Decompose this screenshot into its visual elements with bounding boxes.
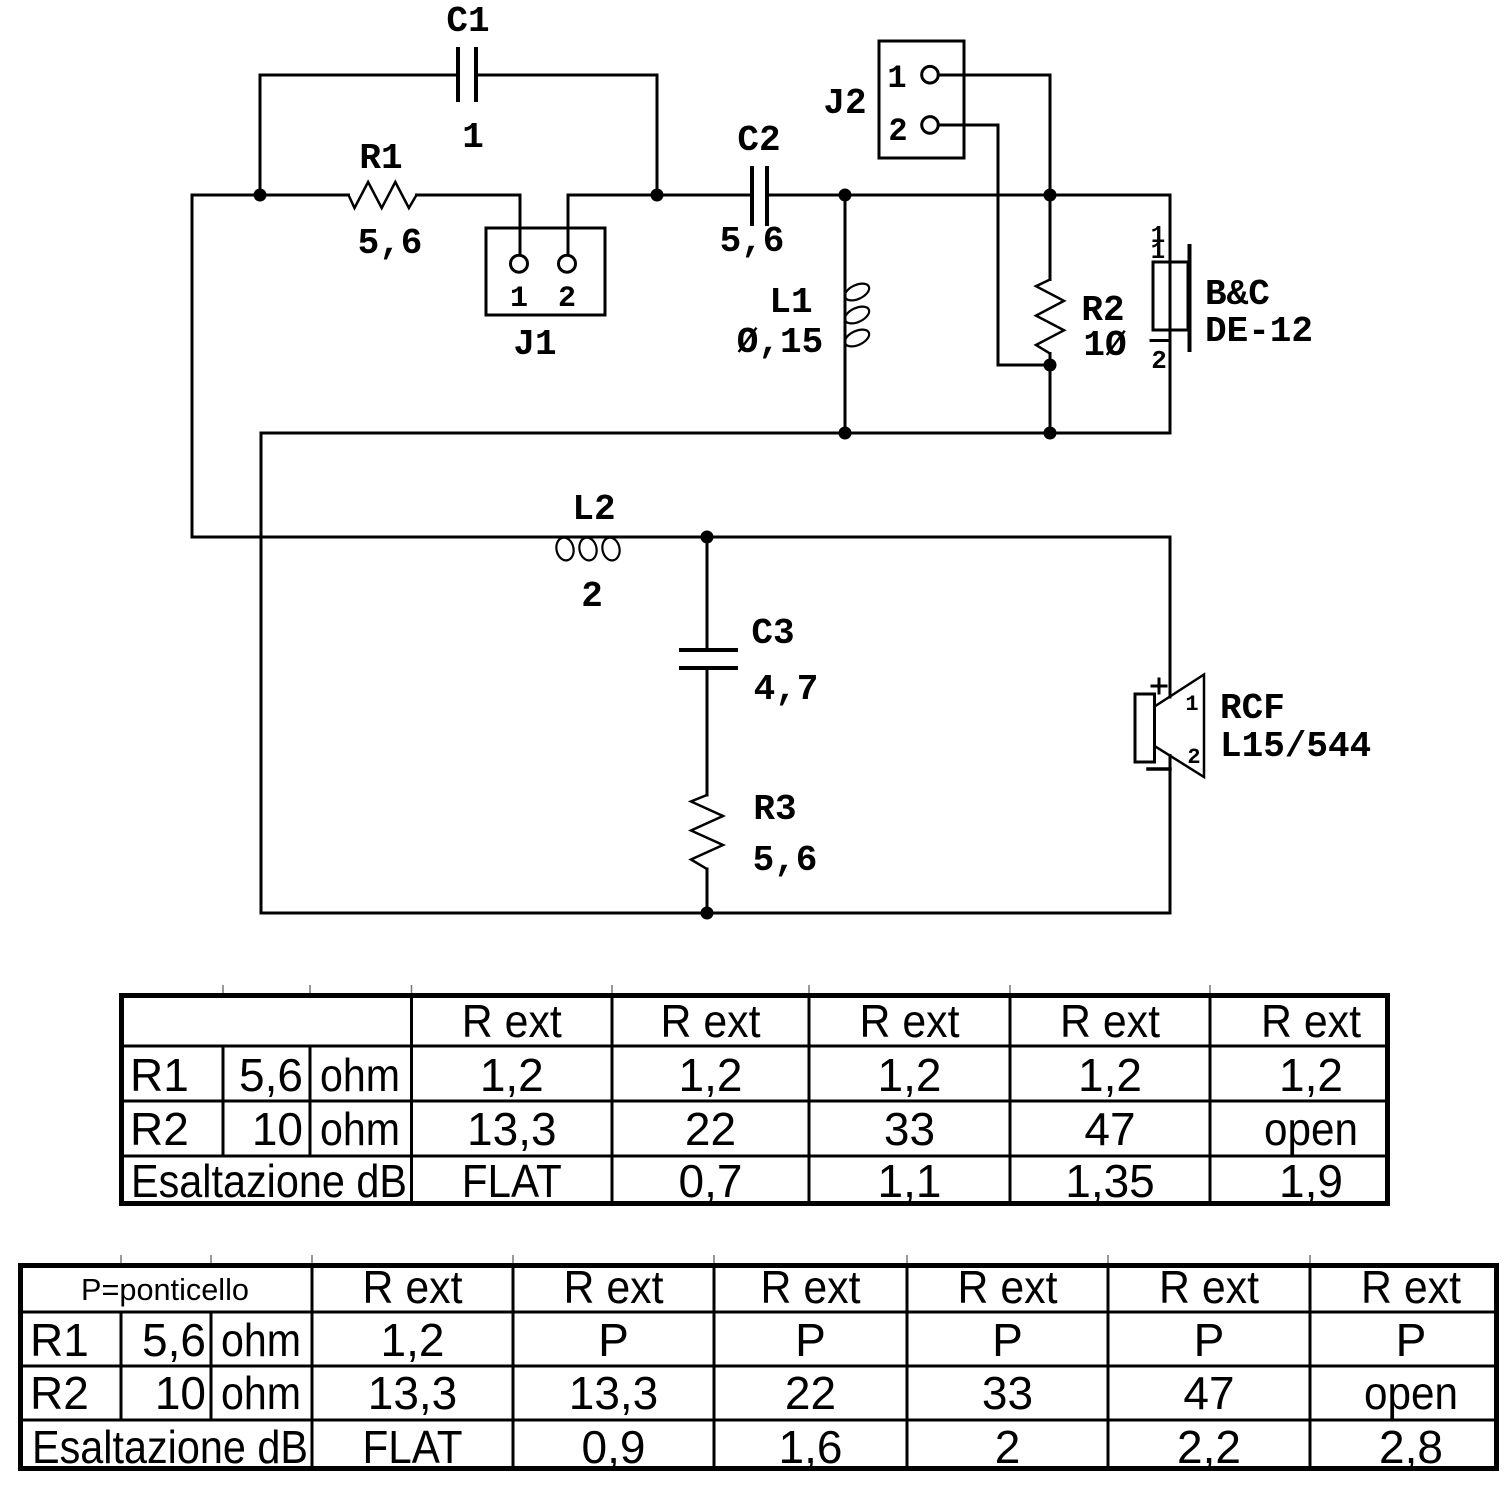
svg-text:1: 1 [1151, 239, 1165, 266]
svg-text:33: 33 [982, 1367, 1033, 1419]
wire C3 to R3 [706, 668, 709, 795]
svg-text:DE-12: DE-12 [1205, 311, 1313, 352]
connector J2 pin1 circle [922, 66, 939, 83]
speaker RCF horn [1155, 675, 1205, 778]
svg-text:1,6: 1,6 [779, 1421, 843, 1473]
svg-text:Esaltazione dB: Esaltazione dB [131, 1155, 407, 1207]
table 1 column line c [410, 995, 413, 1204]
svg-text:R ext: R ext [1159, 1261, 1259, 1313]
speaker minus sign [1148, 767, 1170, 771]
svg-text:P: P [1194, 1314, 1225, 1366]
driver B&C pin2 overline [1151, 339, 1167, 342]
table 2 outer border [21, 1266, 1497, 1469]
wire R3 bottom lead [706, 869, 709, 913]
svg-text:open: open [1264, 1103, 1358, 1155]
wire rail3 [261, 912, 1170, 915]
table 2 column line g [1107, 1265, 1110, 1469]
svg-text:C3: C3 [751, 613, 794, 654]
resistor R1 [349, 182, 417, 208]
wire J2 pin2 vertical [997, 125, 1000, 365]
svg-text:P=ponticello: P=ponticello [81, 1272, 249, 1307]
svg-text:ohm: ohm [221, 1314, 301, 1366]
svg-text:Esaltazione dB: Esaltazione dB [32, 1421, 308, 1473]
svg-text:5,6: 5,6 [239, 1049, 303, 1101]
svg-text:13,3: 13,3 [569, 1367, 659, 1419]
resistor R3 [691, 795, 723, 869]
svg-text:RCF: RCF [1220, 688, 1285, 729]
wire J2 pin1 vertical [1049, 75, 1052, 195]
node junction R3 bottom [701, 907, 714, 920]
connector J2 pin2 circle [922, 117, 939, 134]
svg-text:1,1: 1,1 [878, 1155, 942, 1207]
svg-text:1,2: 1,2 [679, 1049, 743, 1101]
wire J2 pin2 horizontal [938, 124, 998, 127]
svg-text:R2: R2 [130, 1103, 189, 1155]
svg-text:R ext: R ext [363, 1261, 463, 1313]
driver B&C rect [1153, 262, 1188, 330]
svg-text:ohm: ohm [320, 1049, 400, 1101]
wire J2 pin1 horizontal [938, 74, 1050, 77]
table 2 grid stubs above [121, 1255, 1310, 1263]
svg-text:R1: R1 [130, 1049, 189, 1101]
svg-text:2: 2 [1187, 745, 1200, 770]
svg-text:R ext: R ext [761, 1261, 861, 1313]
svg-text:J1: J1 [513, 324, 556, 365]
svg-text:1,2: 1,2 [878, 1049, 942, 1101]
table 1 column line e [808, 995, 811, 1204]
svg-text:ohm: ohm [320, 1103, 400, 1155]
svg-text:47: 47 [1084, 1103, 1135, 1155]
capacitor C1 [458, 49, 476, 100]
table 1 column line f [1009, 995, 1012, 1204]
wire speaker bottom lead [1169, 756, 1172, 914]
svg-text:FLAT: FLAT [462, 1155, 562, 1207]
svg-text:22: 22 [685, 1103, 736, 1155]
table 1 column line b [309, 1046, 312, 1156]
svg-text:B&C: B&C [1205, 274, 1270, 315]
svg-text:2: 2 [888, 113, 907, 150]
svg-text:R ext: R ext [1060, 995, 1160, 1047]
wire rail1 right [767, 194, 1170, 197]
wire rail2 [261, 432, 1170, 435]
table 1 column line d [611, 995, 614, 1204]
capacitor C3 [681, 650, 736, 668]
wire rail1 to J1 pin1 [417, 194, 521, 197]
svg-text:J2: J2 [823, 83, 866, 124]
speaker plus sign [1152, 679, 1166, 693]
wire B&C vertical [1169, 195, 1172, 433]
svg-text:ohm: ohm [221, 1367, 301, 1419]
inductor L1 wire [844, 195, 847, 433]
wire L2 row right [616, 536, 1170, 539]
svg-text:R1: R1 [359, 138, 402, 179]
resistor R2 lead top [1049, 195, 1052, 280]
table 2 row line 2 [18, 1365, 1497, 1368]
table 2 row line 1 [18, 1311, 1497, 1314]
svg-text:R ext: R ext [1261, 995, 1361, 1047]
wire rail1 mid [568, 194, 752, 197]
svg-text:R ext: R ext [661, 995, 761, 1047]
svg-text:1,2: 1,2 [1078, 1049, 1142, 1101]
node junction R2 top [1044, 189, 1057, 202]
table 2 column line f [906, 1265, 909, 1469]
svg-text:5,6: 5,6 [753, 840, 818, 881]
svg-text:C2: C2 [737, 120, 780, 161]
node junction C3 top [701, 531, 714, 544]
wire rail1 left [192, 194, 349, 197]
node junction R2 mid [1044, 359, 1057, 372]
svg-text:1: 1 [462, 117, 484, 158]
table 2 column line d [512, 1265, 515, 1469]
wire J2 pin2 to R2 [998, 364, 1050, 367]
svg-text:2: 2 [581, 576, 603, 617]
capacitor C2 [752, 168, 767, 224]
table 1 column line g [1209, 995, 1212, 1204]
table 2 column line b [210, 1312, 213, 1420]
table 1 column line a [222, 1046, 225, 1156]
connector J2 box [879, 41, 964, 158]
svg-text:P: P [992, 1314, 1023, 1366]
svg-text:1,2: 1,2 [1279, 1049, 1343, 1101]
svg-text:1: 1 [1185, 692, 1198, 717]
driver B&C bar [1188, 246, 1192, 350]
svg-text:R1: R1 [30, 1314, 89, 1366]
svg-text:R ext: R ext [564, 1261, 664, 1313]
svg-text:C1: C1 [446, 1, 489, 42]
svg-text:R ext: R ext [958, 1261, 1058, 1313]
svg-text:open: open [1364, 1367, 1458, 1419]
table 1 outer border [122, 996, 1388, 1204]
svg-text:2,8: 2,8 [1379, 1421, 1443, 1473]
inductor L1 coils [842, 280, 871, 350]
svg-text:33: 33 [884, 1103, 935, 1155]
table 2 column line c [311, 1265, 314, 1469]
node junction R2 bottom [1044, 427, 1057, 440]
svg-text:22: 22 [785, 1367, 836, 1419]
svg-text:1: 1 [510, 282, 528, 316]
wire L2 row left [192, 536, 616, 539]
table 1 [119, 995, 1390, 1204]
svg-text:R ext: R ext [462, 995, 562, 1047]
wire top loop right vertical [656, 75, 659, 195]
svg-text:0,9: 0,9 [582, 1421, 646, 1473]
svg-text:5,6: 5,6 [720, 221, 785, 262]
svg-text:1,35: 1,35 [1065, 1155, 1155, 1207]
svg-text:R2: R2 [30, 1367, 89, 1419]
resistor R2 lead bottom [1049, 354, 1052, 434]
table 1 row line 1 [119, 1045, 1390, 1048]
svg-text:2: 2 [558, 282, 576, 316]
svg-text:47: 47 [1183, 1367, 1234, 1419]
inductor L2 coils [554, 536, 621, 562]
wire J1 pin2 drop [567, 195, 570, 255]
wire J1 pin1 drop [519, 195, 522, 255]
connector J1 pin2 circle [559, 255, 576, 272]
table 1 grid stubs above [223, 985, 1210, 993]
connector J1 pin1 circle [511, 255, 528, 272]
svg-text:R ext: R ext [1361, 1261, 1461, 1313]
wire top loop right horizontal [476, 74, 657, 77]
svg-text:R3: R3 [753, 789, 796, 830]
speaker RCF rect [1135, 694, 1155, 762]
svg-text:1,2: 1,2 [381, 1314, 445, 1366]
svg-text:2: 2 [995, 1421, 1021, 1473]
table 2 row line 3 [18, 1419, 1497, 1422]
svg-text:10: 10 [155, 1367, 206, 1419]
svg-text:1,9: 1,9 [1279, 1155, 1343, 1207]
svg-text:P: P [598, 1314, 629, 1366]
svg-text:2,2: 2,2 [1177, 1421, 1241, 1473]
table 2 [18, 1265, 1497, 1469]
svg-text:Ø,15: Ø,15 [737, 322, 823, 363]
svg-text:L15/544: L15/544 [1220, 726, 1371, 767]
table 2 column line h [1309, 1265, 1312, 1469]
svg-text:10: 10 [252, 1103, 303, 1155]
wire speaker top lead [1169, 537, 1172, 697]
svg-text:13,3: 13,3 [467, 1103, 557, 1155]
svg-text:L1: L1 [769, 282, 812, 323]
wire left vertical 2 [260, 433, 263, 913]
node junction L1 bottom [839, 427, 852, 440]
wire top loop left vertical [259, 75, 262, 195]
svg-text:4,7: 4,7 [754, 669, 819, 710]
table 2 column line a [120, 1312, 123, 1420]
svg-text:5,6: 5,6 [142, 1314, 206, 1366]
svg-text:1,2: 1,2 [480, 1049, 544, 1101]
resistor R2 [1036, 280, 1064, 354]
table 1 row line 3 [119, 1155, 1390, 1158]
table 2 column line e [713, 1265, 716, 1469]
svg-text:P: P [795, 1314, 826, 1366]
svg-text:R ext: R ext [860, 995, 960, 1047]
table 1 row line 2 [119, 1100, 1390, 1103]
svg-text:P: P [1396, 1314, 1427, 1366]
svg-text:FLAT: FLAT [363, 1421, 463, 1473]
svg-text:L2: L2 [572, 489, 615, 530]
svg-text:13,3: 13,3 [368, 1367, 458, 1419]
node junction L1 top [839, 189, 852, 202]
wire top loop left horizontal [260, 74, 458, 77]
wire C3 top lead [706, 537, 709, 650]
node junction C1 left [254, 189, 267, 202]
node junction C1 right [651, 189, 664, 202]
svg-text:2: 2 [1151, 346, 1167, 376]
svg-text:0,7: 0,7 [679, 1155, 743, 1207]
svg-text:5,6: 5,6 [358, 223, 423, 264]
svg-text:1: 1 [887, 60, 906, 97]
svg-text:1Ø: 1Ø [1083, 325, 1126, 366]
wire left vertical [191, 195, 194, 537]
connector J1 box [486, 228, 605, 315]
